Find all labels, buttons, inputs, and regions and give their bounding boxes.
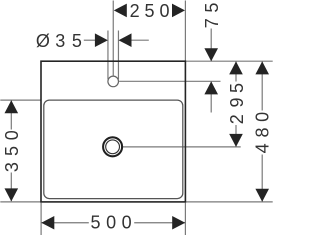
svg-text:480: 480 (252, 112, 272, 154)
svg-text:295: 295 (227, 83, 247, 124)
svg-text:Ø35: Ø35 (36, 31, 82, 51)
svg-text:500: 500 (91, 213, 132, 233)
svg-text:250: 250 (130, 1, 170, 21)
svg-text:350: 350 (2, 130, 22, 172)
